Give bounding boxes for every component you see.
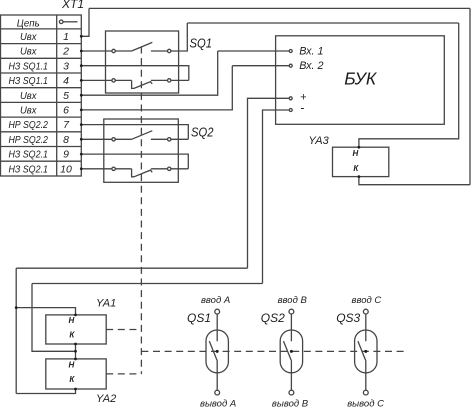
svg-text:5: 5 — [63, 90, 69, 102]
switch SQ2 NC contact — [112, 167, 115, 170]
svg-text:6: 6 — [63, 105, 69, 117]
svg-text:9: 9 — [63, 149, 69, 161]
svg-text:вывод А: вывод А — [200, 399, 236, 409]
wire YA1 K to YA2 H link — [75, 344, 77, 359]
svg-text:НЗ SQ1.1: НЗ SQ1.1 — [8, 75, 48, 87]
svg-text:ввод В: ввод В — [278, 295, 308, 306]
wire pin4 to SQ1 bottom-left terminal — [81, 79, 112, 81]
svg-text:4: 4 — [63, 75, 69, 87]
node YA3 H — [358, 146, 361, 149]
connector XT1 table frame — [1, 15, 82, 176]
svg-text:ввод С: ввод С — [352, 295, 382, 306]
wire BUK plus down to rail — [248, 98, 289, 268]
svg-text:вывод С: вывод С — [347, 399, 384, 409]
node pin9 — [80, 153, 83, 156]
svg-text:ввод А: ввод А — [201, 295, 230, 306]
terminal minus of BUK — [289, 109, 292, 112]
svg-text:3: 3 — [63, 60, 69, 72]
wire y=23 across to right side — [187, 22, 458, 24]
svg-text:YA3: YA3 — [309, 135, 330, 147]
solenoid YA3 box — [333, 147, 389, 176]
wire plus rail y=268.2 — [16, 267, 247, 269]
svg-text:НЗ SQ2.1: НЗ SQ2.1 — [8, 149, 48, 161]
node QS3 center — [364, 350, 367, 353]
node YA1K-YA2H junction — [74, 350, 77, 353]
svg-text:QS2: QS2 — [261, 311, 285, 325]
terminal Vx.2 of BUK — [289, 64, 292, 67]
svg-text:Цепь: Цепь — [17, 17, 40, 29]
mechanical link dashed stub YA2 — [106, 373, 141, 375]
svg-text:Вх. 1: Вх. 1 — [299, 46, 323, 58]
node pin8 — [80, 138, 83, 141]
node pin4 — [80, 79, 83, 82]
node YA3 K — [358, 175, 361, 178]
node pin10 — [80, 167, 83, 170]
svg-text:Н: Н — [69, 316, 75, 325]
wire pin1 to top rail — [81, 8, 89, 36]
wire left drop x=16.2 — [15, 268, 17, 393]
svg-text:БУК: БУК — [344, 69, 378, 89]
mechanical link dashed vertical from SQ1/SQ2 — [140, 47, 142, 374]
connector pin symbol in table header — [59, 20, 63, 24]
wire y=184.7 to YA3 K — [359, 177, 470, 185]
node left rail branch — [15, 306, 18, 309]
terminal plus of BUK — [289, 97, 292, 100]
wire SQ1 bottom-right terminal to bracket — [171, 79, 189, 81]
node pin3 — [80, 64, 83, 67]
svg-text:Uвх: Uвх — [20, 90, 37, 102]
node YA1 H — [74, 314, 77, 317]
svg-text:Uвх: Uвх — [20, 105, 37, 117]
wire pin6 to Vx2 corner — [81, 66, 232, 110]
svg-text:Uвх: Uвх — [20, 46, 37, 58]
node QS2 center — [290, 350, 293, 353]
mechanical link dashed horizontal through QS1 QS2 QS3 — [141, 350, 404, 352]
node pin1 — [80, 35, 83, 38]
svg-text:НЗ SQ2.1: НЗ SQ2.1 — [8, 163, 48, 175]
wire SQ2 bottom-right terminal to bracket — [171, 168, 188, 170]
node pin2 — [80, 50, 83, 53]
node YA1 K — [74, 343, 77, 346]
svg-text:НР SQ2.2: НР SQ2.2 — [8, 134, 48, 146]
disconnector QS1 terminals and blade — [215, 309, 220, 314]
disconnector QS2 terminals and blade — [289, 309, 294, 314]
wire pin2 to SQ1 top-left terminal — [81, 50, 112, 52]
svg-text:К: К — [69, 375, 75, 384]
control unit BUK box — [276, 36, 445, 125]
switch SQ1 NC contact — [112, 79, 115, 82]
node pin6 — [80, 109, 83, 112]
svg-text:Н: Н — [353, 149, 359, 158]
wire pin7 line through SQ2 to right bracket — [81, 125, 188, 140]
solenoid YA1 box — [46, 315, 106, 344]
disconnector QS1 body — [206, 330, 228, 373]
wire pin5 to Vx1 corner — [81, 51, 217, 95]
wire pin10 to SQ2 bottom-left terminal — [81, 168, 112, 170]
svg-text:Н: Н — [69, 360, 75, 369]
switch SQ2 box — [104, 119, 179, 182]
wire pin3 line through SQ1 to right bracket — [81, 66, 189, 81]
svg-text:К: К — [353, 164, 359, 173]
svg-text:1: 1 — [63, 31, 69, 43]
disconnector QS2 body — [280, 330, 302, 373]
wire minus rail y=283.5 — [32, 283, 263, 285]
svg-text:2: 2 — [62, 46, 69, 58]
wire x=458.7 down to YA3 H — [359, 23, 459, 147]
wire SQ2 top-right terminal to bracket — [171, 138, 188, 140]
svg-text:7: 7 — [63, 119, 70, 131]
svg-text:8: 8 — [63, 134, 69, 146]
switch SQ1 box — [106, 31, 179, 93]
node YA2 H — [74, 358, 77, 361]
svg-text:ХТ1: ХТ1 — [61, 0, 84, 11]
svg-text:НР SQ2.2: НР SQ2.2 — [8, 119, 48, 131]
svg-text:-: - — [300, 101, 304, 115]
svg-text:Вх. 2: Вх. 2 — [299, 60, 323, 72]
node QS1 center — [216, 350, 219, 353]
svg-text:QS3: QS3 — [336, 311, 360, 325]
svg-text:НЗ SQ1.1: НЗ SQ1.1 — [8, 60, 48, 72]
mechanical link dashed stub YA1 — [106, 329, 141, 331]
node YA2 K — [74, 388, 77, 391]
svg-text:YA2: YA2 — [96, 393, 116, 405]
svg-text:10: 10 — [60, 163, 72, 175]
svg-text:вывод В: вывод В — [272, 399, 309, 409]
solenoid YA2 box — [46, 359, 106, 389]
wire top rail y=8.4 to right side — [89, 7, 470, 9]
svg-text:SQ1: SQ1 — [190, 36, 213, 51]
svg-text:YA1: YA1 — [96, 297, 116, 309]
node pin7 — [80, 123, 83, 126]
svg-text:QS1: QS1 — [187, 311, 211, 325]
wire pin8 to SQ2 top-left terminal — [81, 138, 112, 140]
wire Vx.2 into BUK — [232, 65, 289, 67]
disconnector QS3 body — [355, 330, 377, 373]
node pin5 — [80, 94, 83, 97]
wire branch to YA1 H — [16, 308, 75, 315]
svg-text:SQ2: SQ2 — [191, 125, 214, 140]
wire x=32 drop to YA1K/YA2H link — [32, 284, 76, 352]
wire pin9 line through SQ2 to right bracket — [81, 154, 188, 169]
disconnector QS3 terminals and blade — [363, 309, 368, 314]
wire BUK minus down to rail — [263, 110, 289, 284]
svg-text:К: К — [69, 331, 75, 340]
terminal Vx.1 of BUK — [289, 50, 292, 53]
wire bottom to YA2 K — [16, 389, 75, 394]
switch SQ1 NO contact — [112, 49, 115, 52]
wire SQ1 top-right terminal up to y=23 — [171, 23, 187, 51]
switch SQ2 NO contact — [112, 138, 115, 141]
svg-text:Uвх: Uвх — [20, 31, 37, 43]
wire right-side drop x=470 — [469, 8, 471, 184]
wire Vx.1 into BUK — [218, 50, 289, 52]
